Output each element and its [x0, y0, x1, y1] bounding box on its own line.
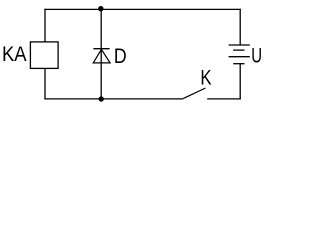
wire left vertical lower [44, 69, 46, 100]
svg-text:KA: KA [2, 43, 27, 66]
diode D triangle [93, 49, 110, 63]
wire top horizontal [44, 8, 240, 10]
switch K lever [183, 88, 206, 99]
node junction bottom [99, 96, 104, 101]
battery U short plate 1 [233, 49, 244, 51]
svg-text:D: D [114, 45, 127, 68]
battery U long plate 1 [229, 44, 250, 46]
wire bottom left horizontal [44, 98, 183, 100]
wire right vertical lower [239, 64, 241, 100]
diode D cathode bar [93, 48, 109, 50]
relay coil KA [30, 42, 58, 69]
wire bottom right horizontal [207, 98, 241, 100]
wire right vertical upper [239, 9, 241, 45]
node junction top [98, 6, 103, 11]
svg-text:U: U [251, 44, 262, 67]
battery U long plate 2 [229, 56, 250, 58]
battery U short plate 2 [233, 63, 244, 65]
wire diode branch vertical [100, 9, 102, 99]
svg-text:K: K [200, 66, 211, 89]
wire left vertical upper [44, 9, 46, 42]
